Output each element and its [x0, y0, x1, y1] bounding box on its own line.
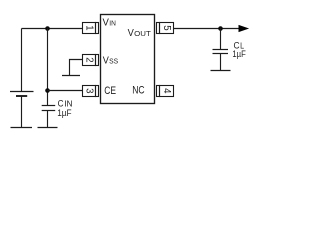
wire VSS [70, 60, 84, 76]
node CE junction [45, 88, 50, 93]
battery cell BAT [10, 92, 34, 97]
value label CIN 1uF [57, 108, 72, 119]
node CL junction [218, 26, 223, 31]
svg-text:V: V [103, 17, 109, 29]
svg-text:2: 2 [84, 57, 95, 62]
pin 4 box [157, 86, 174, 97]
capacitor CIN [42, 106, 56, 111]
pin 3 box [83, 86, 99, 97]
node VIN/CIN junction [45, 26, 50, 31]
wire CIN drop [47, 29, 49, 106]
pin 2 number [84, 57, 95, 62]
svg-text:V: V [103, 54, 109, 66]
svg-text:3: 3 [84, 88, 95, 93]
wire battery positive drop [21, 29, 23, 92]
pin 1 number [84, 25, 95, 30]
wire VIN top rail [22, 28, 84, 30]
pin 5 box [157, 23, 174, 34]
value label CL [234, 40, 245, 51]
pin 5 number [161, 25, 172, 30]
wire CE [48, 90, 84, 92]
svg-text:CE: CE [104, 85, 116, 97]
svg-text:OUT: OUT [134, 29, 151, 38]
pin label VIN [103, 17, 116, 29]
pin label VSS [103, 54, 118, 66]
svg-text:1: 1 [84, 25, 95, 30]
wire battery negative drop [21, 96, 23, 128]
svg-text:4: 4 [161, 88, 172, 94]
ground (CL) [211, 70, 231, 72]
ground (battery) [11, 127, 33, 129]
svg-text:5: 5 [161, 25, 172, 30]
svg-text:V: V [128, 27, 134, 39]
svg-text:SS: SS [109, 56, 118, 65]
ground (VSS) [62, 75, 80, 77]
svg-text:1µF: 1µF [232, 49, 246, 59]
pin 4 number [161, 88, 172, 94]
pin label CE [104, 85, 116, 97]
pin 3 number [84, 88, 95, 93]
pin label NC [132, 85, 145, 97]
pin 1 box [83, 23, 99, 34]
output arrow [239, 25, 248, 31]
svg-text:IN: IN [64, 99, 72, 109]
svg-text:IN: IN [109, 19, 116, 28]
wire CIN to ground [47, 111, 49, 128]
pin label VOUT [128, 27, 152, 39]
svg-text:NC: NC [132, 85, 145, 97]
IC U1 body [101, 15, 155, 104]
pin 2 box [83, 55, 99, 66]
wire VOUT rail [174, 28, 240, 30]
wire CL to ground [220, 54, 222, 71]
value label CIN [58, 99, 73, 110]
value label CL 1uF [232, 49, 246, 59]
svg-text:1µF: 1µF [57, 108, 72, 119]
capacitor CL [213, 50, 229, 54]
ground (CIN) [38, 127, 58, 129]
wire CL drop [220, 29, 222, 50]
